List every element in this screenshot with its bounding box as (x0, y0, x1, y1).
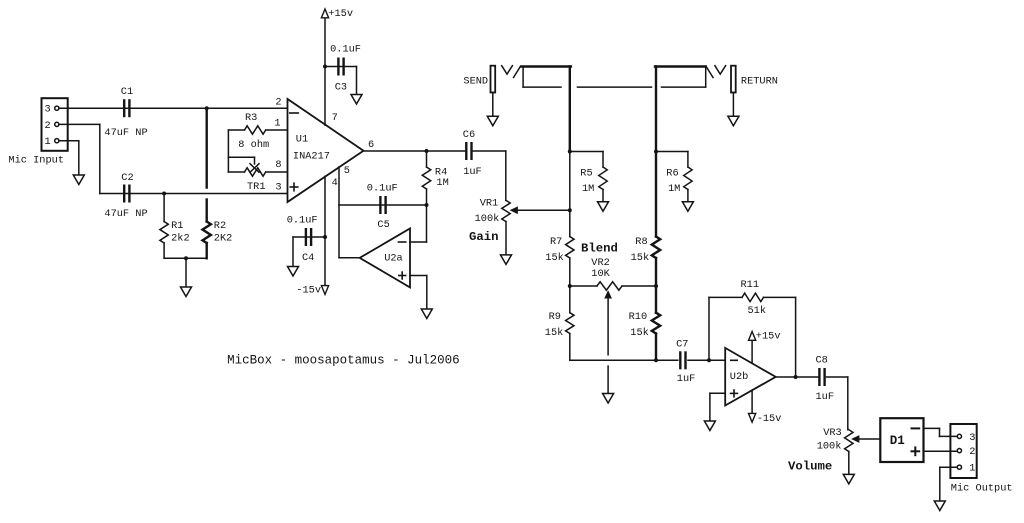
svg-text:R10: R10 (629, 311, 648, 323)
svg-text:1uF: 1uF (463, 166, 482, 178)
svg-text:Mic Input: Mic Input (8, 155, 64, 167)
svg-text:5: 5 (344, 165, 350, 177)
svg-text:100k: 100k (475, 213, 500, 225)
svg-text:0.1uF: 0.1uF (367, 183, 398, 195)
svg-text:C1: C1 (121, 86, 133, 98)
svg-text:15k: 15k (630, 327, 649, 339)
svg-text:+15v: +15v (756, 330, 781, 342)
svg-text:VR1: VR1 (480, 198, 499, 210)
svg-text:+15v: +15v (328, 8, 353, 20)
svg-text:Volume: Volume (788, 459, 832, 473)
svg-text:C6: C6 (463, 129, 475, 141)
svg-text:-15v: -15v (296, 284, 321, 296)
svg-text:8: 8 (275, 159, 281, 171)
svg-text:R11: R11 (741, 279, 760, 291)
svg-text:U1: U1 (296, 134, 308, 146)
svg-text:3: 3 (45, 104, 51, 116)
svg-text:2: 2 (275, 97, 281, 109)
svg-text:C2: C2 (121, 172, 133, 184)
svg-text:1: 1 (969, 463, 975, 475)
svg-text:2: 2 (969, 446, 975, 458)
svg-text:1: 1 (274, 118, 280, 130)
svg-text:U2b: U2b (730, 371, 749, 383)
svg-text:3: 3 (969, 432, 975, 444)
svg-text:7: 7 (332, 112, 338, 124)
svg-text:VR3: VR3 (823, 427, 842, 439)
svg-text:2k2: 2k2 (171, 232, 190, 244)
svg-text:C3: C3 (335, 81, 347, 93)
svg-text:15k: 15k (545, 252, 564, 264)
svg-text:U2a: U2a (384, 252, 403, 264)
svg-text:Gain: Gain (469, 230, 499, 244)
svg-text:RETURN: RETURN (741, 76, 778, 88)
svg-text:C7: C7 (676, 339, 688, 351)
svg-text:R9: R9 (549, 311, 561, 323)
svg-text:3: 3 (275, 181, 281, 193)
svg-text:4: 4 (332, 177, 338, 189)
svg-text:1: 1 (45, 136, 51, 148)
svg-text:0.1uF: 0.1uF (287, 214, 318, 226)
svg-text:51k: 51k (748, 305, 767, 317)
svg-text:MicBox - moosapotamus - Jul200: MicBox - moosapotamus - Jul2006 (227, 354, 460, 368)
svg-text:6: 6 (368, 139, 374, 151)
svg-text:R7: R7 (550, 236, 562, 248)
svg-text:47uF NP: 47uF NP (104, 208, 147, 220)
svg-text:15k: 15k (545, 327, 564, 339)
svg-text:Mic Output: Mic Output (951, 482, 1013, 494)
svg-text:R3: R3 (245, 112, 257, 124)
svg-text:47uF NP: 47uF NP (104, 127, 147, 139)
svg-text:R6: R6 (666, 167, 678, 179)
svg-text:Blend: Blend (581, 241, 618, 255)
svg-text:10K: 10K (591, 268, 610, 280)
svg-text:100k: 100k (817, 441, 842, 453)
svg-text:15k: 15k (631, 252, 650, 264)
svg-text:C8: C8 (816, 354, 828, 366)
svg-text:1uF: 1uF (816, 391, 835, 403)
svg-text:D1: D1 (890, 434, 905, 448)
svg-text:C4: C4 (302, 252, 314, 264)
svg-text:SEND: SEND (463, 76, 488, 88)
svg-text:R5: R5 (580, 167, 592, 179)
svg-text:R2: R2 (214, 220, 226, 232)
svg-text:2K2: 2K2 (214, 232, 233, 244)
svg-text:1M: 1M (436, 177, 448, 189)
svg-text:R8: R8 (635, 236, 647, 248)
svg-text:1M: 1M (668, 183, 680, 195)
svg-text:1M: 1M (582, 183, 594, 195)
svg-text:TR1: TR1 (247, 181, 266, 193)
svg-text:1uF: 1uF (677, 373, 696, 385)
svg-text:INA217: INA217 (293, 151, 330, 163)
svg-text:-15v: -15v (757, 413, 782, 425)
svg-text:0.1uF: 0.1uF (330, 44, 361, 56)
svg-text:2: 2 (45, 120, 51, 132)
svg-text:R1: R1 (171, 220, 183, 232)
svg-text:8 ohm: 8 ohm (238, 139, 269, 151)
svg-text:C5: C5 (377, 219, 389, 231)
